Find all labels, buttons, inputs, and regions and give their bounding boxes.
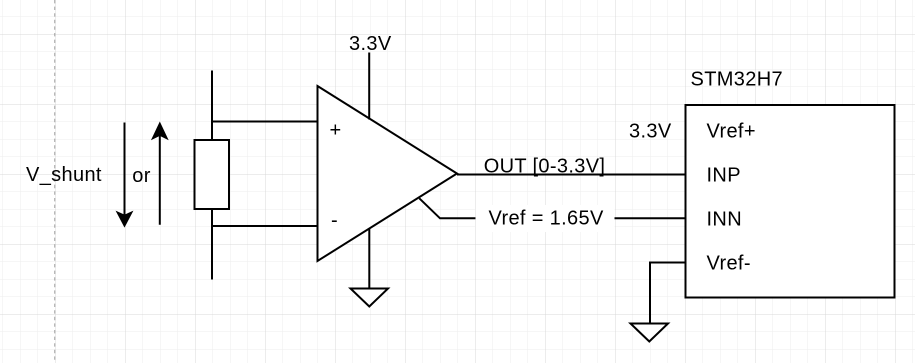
arrow down (V_shunt polarity): [117, 123, 132, 227]
resistor (shunt): [195, 140, 230, 209]
arrow up (alternate polarity): [152, 123, 167, 225]
dashed page boundary line: [54, 0, 56, 363]
label Vref = 1.65V (white background): [476, 205, 615, 232]
wire op-amp output to INP: [457, 174, 686, 176]
svg-text:Vref+: Vref+: [707, 121, 756, 143]
svg-text:3.3V: 3.3V: [629, 121, 672, 143]
wire op-amp to ground: [368, 228, 370, 288]
svg-text:INN: INN: [707, 208, 743, 230]
svg-text:+: +: [330, 120, 342, 142]
svg-text:OUT [0-3.3V]: OUT [0-3.3V]: [484, 155, 606, 177]
wire to op-amp inverting input: [211, 225, 318, 227]
svg-text:V_shunt: V_shunt: [26, 164, 102, 186]
wire to op-amp non-inverting input: [211, 121, 318, 123]
wire from resistor to bottom node: [211, 209, 213, 280]
wire Vref to op-amp (elbow): [419, 198, 685, 218]
svg-text:-: -: [331, 210, 338, 232]
svg-text:STM32H7: STM32H7: [691, 69, 783, 91]
ground (op-amp): [351, 289, 389, 307]
wire Vref- to ground: [650, 263, 686, 324]
wire from top node to resistor: [211, 71, 213, 141]
svg-text:or: or: [132, 165, 150, 187]
op-amp: [318, 86, 458, 261]
svg-text:Vref-: Vref-: [707, 253, 751, 275]
MCU STM32H7 box: [686, 105, 895, 298]
svg-text:Vref = 1.65V: Vref = 1.65V: [489, 208, 605, 230]
wire 3.3V supply to op-amp: [368, 53, 370, 120]
ground (Vref-): [631, 324, 669, 342]
svg-text:INP: INP: [707, 165, 741, 187]
svg-text:3.3V: 3.3V: [349, 33, 392, 55]
